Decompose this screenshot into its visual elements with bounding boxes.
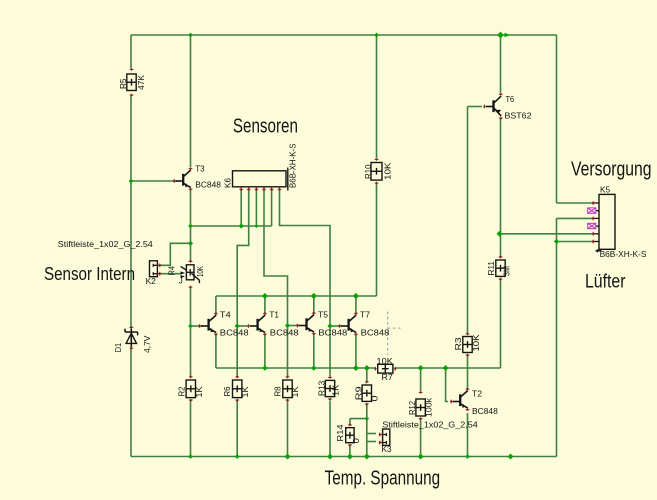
svg-text:R5: R5 bbox=[118, 78, 128, 89]
svg-text:R12: R12 bbox=[407, 401, 417, 415]
svg-text:10K: 10K bbox=[195, 266, 205, 277]
svg-text:R2: R2 bbox=[177, 386, 187, 396]
svg-text:Versorgung: Versorgung bbox=[571, 159, 652, 181]
svg-text:R14: R14 bbox=[335, 424, 345, 441]
svg-text:K5: K5 bbox=[600, 184, 610, 194]
svg-text:K6: K6 bbox=[222, 178, 232, 188]
svg-text:R3: R3 bbox=[453, 337, 463, 350]
svg-text:Stiftleiste_1x02_G_2.54: Stiftleiste_1x02_G_2.54 bbox=[58, 239, 153, 249]
svg-text:BC848: BC848 bbox=[270, 328, 299, 338]
svg-text:R10: R10 bbox=[363, 164, 373, 179]
svg-text:BC848: BC848 bbox=[361, 328, 390, 338]
svg-text:Sensoren: Sensoren bbox=[233, 116, 298, 138]
svg-text:R6: R6 bbox=[222, 386, 232, 396]
svg-text:R13: R13 bbox=[316, 381, 326, 396]
svg-text:T3: T3 bbox=[195, 164, 205, 174]
svg-text:R8: R8 bbox=[273, 386, 283, 396]
svg-text:1K: 1K bbox=[331, 384, 341, 396]
svg-text:47K: 47K bbox=[136, 75, 146, 90]
svg-text:3M: 3M bbox=[502, 266, 512, 276]
svg-text:1K: 1K bbox=[240, 386, 250, 398]
svg-text:BC848: BC848 bbox=[220, 328, 249, 338]
svg-text:BC848: BC848 bbox=[318, 328, 347, 338]
svg-text:10K: 10K bbox=[377, 356, 394, 366]
svg-text:D1: D1 bbox=[113, 343, 123, 353]
svg-text:10K: 10K bbox=[383, 162, 393, 180]
svg-text:T2: T2 bbox=[472, 388, 482, 398]
svg-text:4,7V: 4,7V bbox=[142, 335, 152, 353]
svg-text:Temp. Spannung: Temp. Spannung bbox=[325, 468, 441, 490]
svg-text:Sensor Intern: Sensor Intern bbox=[44, 264, 135, 284]
svg-text:B6B-XH-K-S: B6B-XH-K-S bbox=[600, 250, 647, 259]
svg-text:T6: T6 bbox=[506, 94, 515, 104]
svg-text:0: 0 bbox=[351, 438, 361, 443]
svg-text:B6B-XH-K-S: B6B-XH-K-S bbox=[288, 144, 297, 189]
svg-text:J: J bbox=[179, 277, 183, 286]
svg-text:BC848: BC848 bbox=[195, 180, 221, 190]
svg-text:1K: 1K bbox=[194, 386, 204, 398]
svg-text:T7: T7 bbox=[360, 310, 370, 320]
svg-text:R7: R7 bbox=[382, 372, 394, 382]
svg-text:T4: T4 bbox=[220, 310, 231, 320]
svg-text:10K: 10K bbox=[471, 334, 481, 351]
svg-text:K2: K2 bbox=[146, 276, 156, 286]
svg-text:BST62: BST62 bbox=[505, 111, 532, 121]
svg-text:100k: 100k bbox=[424, 397, 434, 417]
svg-text:R11: R11 bbox=[486, 261, 496, 276]
svg-text:1K: 1K bbox=[290, 386, 300, 398]
svg-text:Lüfter: Lüfter bbox=[585, 271, 626, 293]
svg-text:K3: K3 bbox=[382, 444, 392, 454]
svg-text:BC848: BC848 bbox=[472, 406, 498, 416]
svg-text:R9: R9 bbox=[353, 386, 363, 400]
svg-text:0: 0 bbox=[370, 395, 380, 401]
svg-text:T5: T5 bbox=[318, 310, 328, 320]
svg-text:R4: R4 bbox=[167, 266, 177, 276]
svg-text:Stiftleiste_1x02_G_2,54: Stiftleiste_1x02_G_2,54 bbox=[382, 420, 478, 430]
svg-text:T1: T1 bbox=[269, 310, 279, 320]
